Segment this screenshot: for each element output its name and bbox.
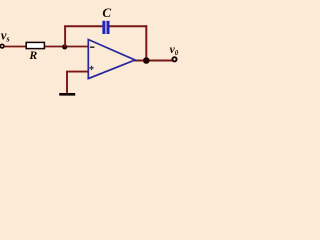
capacitor C1 plates	[102, 21, 109, 34]
resistor R1	[26, 42, 44, 48]
wire: feedback vertical left	[64, 26, 66, 47]
svg-text:C: C	[102, 5, 111, 20]
node A (junction of R, op-amp input and feedback)	[62, 44, 67, 49]
terminal: output	[172, 57, 176, 61]
wire: feedback vertical right down to output	[145, 25, 147, 60]
op-amp U1	[88, 40, 135, 79]
wire: non-inverting input to ground	[67, 72, 88, 94]
op-amp plus input mark	[89, 66, 93, 70]
wire: input from terminal to op-amp inverting input	[3, 46, 88, 48]
terminal: input	[0, 44, 4, 48]
ground	[59, 93, 75, 96]
svg-text:R: R	[28, 48, 37, 62]
wire: feedback top horizontal	[64, 25, 147, 27]
wire: op-amp output to terminal	[134, 60, 173, 62]
node B (output junction)	[143, 57, 150, 64]
op-amp minus input mark	[90, 46, 94, 48]
